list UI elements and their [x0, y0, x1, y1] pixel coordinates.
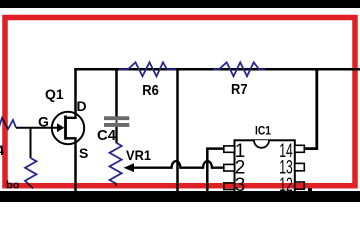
svg-text:IC1: IC1: [255, 124, 271, 138]
svg-text:D: D: [77, 98, 87, 114]
pin 3 stub: [224, 183, 235, 190]
small mark right of pin 12: [308, 188, 312, 192]
transistor Q1 (JFET): [16, 112, 84, 145]
svg-text:R7: R7: [231, 81, 248, 98]
potentiometer VR1 (zigzag): [110, 143, 122, 187]
IC IC1 body: [235, 140, 295, 204]
resistor R7: [213, 62, 265, 76]
wire: Q1 source vertical: [74, 145, 77, 191]
resistor R4 (partial, left edge): [0, 118, 16, 130]
wire: VR1 wiper to IC pin2 (with hops): [124, 161, 224, 172]
wire: branch to C4: [115, 69, 118, 117]
letterbox bar top: [0, 0, 360, 8]
capacitor C4: [104, 116, 129, 127]
wire: Q1 drain vertical: [74, 69, 77, 113]
svg-text:VR1: VR1: [126, 147, 151, 163]
red highlight border: [5, 18, 355, 186]
svg-text:C4: C4: [97, 128, 116, 144]
pin 2 stub: [224, 164, 235, 171]
resistor (vertical, bottom-left): [25, 158, 37, 189]
svg-text:S: S: [79, 145, 88, 161]
wire: pin 14 to top rail: [304, 69, 317, 148]
pin 13 stub: [295, 163, 305, 170]
pin 14 stub: [295, 145, 305, 152]
resistor R6: [119, 62, 176, 76]
svg-text:Q1: Q1: [45, 86, 64, 102]
wire: top supply rail: [74, 68, 360, 71]
svg-text:G: G: [38, 114, 49, 130]
pin 1 stub: [224, 146, 235, 152]
wire: IC pin1 branch: [207, 149, 224, 191]
letterbox bar bottom: [0, 191, 360, 202]
wire: mid branch vertical (R6/R7 node to bottom): [176, 69, 179, 191]
wire: C4 to VR1: [115, 127, 117, 143]
pin 12 stub: [295, 182, 305, 189]
svg-text:R6: R6: [142, 82, 159, 99]
wire: gate branch down: [30, 128, 32, 158]
